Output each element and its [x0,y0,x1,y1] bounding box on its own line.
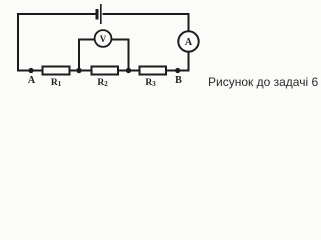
svg-text:A: A [28,75,36,86]
svg-text:A: A [185,37,193,48]
svg-text:V: V [100,34,107,44]
svg-text:R3: R3 [145,78,156,88]
svg-text:R1: R1 [51,78,62,88]
svg-text:Рисунок до задачі 6: Рисунок до задачі 6 [208,75,318,89]
svg-text:B: B [175,75,182,86]
svg-text:R2: R2 [97,78,108,88]
